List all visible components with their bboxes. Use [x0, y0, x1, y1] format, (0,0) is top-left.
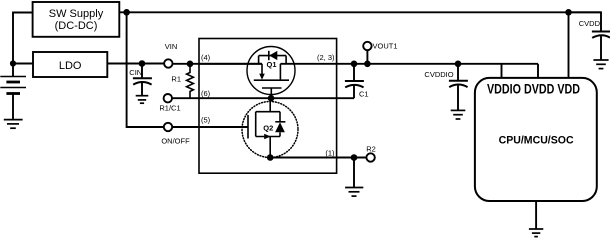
node: CVDDIO junction [455, 61, 462, 68]
node: R2 ground junction [351, 154, 358, 161]
capacitor CVDD [592, 32, 610, 61]
svg-text:CVDDIO: CVDDIO [424, 70, 453, 79]
wire: Q1 drain to VOUT [280, 63, 538, 65]
svg-text:(5): (5) [201, 116, 211, 125]
ground: CIN [136, 96, 149, 104]
resistor R1 [187, 67, 194, 98]
svg-text:VOUT1: VOUT1 [373, 42, 398, 51]
capacitor C1 [345, 64, 364, 98]
node: VOUT1 junction [364, 61, 371, 68]
svg-text:Q2: Q2 [263, 123, 273, 132]
pin circle: R1/C1 [164, 94, 172, 102]
wire: (1) net to R2 [270, 157, 366, 159]
wire: CPU ground lead [535, 201, 537, 229]
node: Q1 gate / net 6 junction [268, 95, 275, 102]
node: CIN junction [139, 60, 146, 67]
wire: VIN to Q1 source [173, 63, 263, 65]
wire: battery to SW Supply input [13, 13, 33, 61]
node: VDD feed junction [565, 9, 572, 16]
wire: ON/OFF to Q2 gate [172, 126, 248, 128]
wire: SW Supply output to VDD rail [119, 11, 601, 13]
capacitor CIN [133, 64, 152, 96]
svg-text:(1): (1) [325, 149, 335, 158]
svg-text:CIN: CIN [129, 68, 142, 77]
ground: CVDDIO [451, 110, 466, 119]
node: SW supply output junction [123, 9, 130, 16]
pin circle: R2 [366, 153, 374, 161]
wire: battery node vertical to battery top [12, 60, 14, 77]
wire: VDD pin drop [568, 12, 570, 78]
svg-text:Q1: Q1 [266, 60, 276, 69]
wire: VDDIO pin drop [501, 64, 503, 78]
svg-text:(DC-DC): (DC-DC) [55, 20, 98, 32]
node: R1 top junction [187, 61, 194, 68]
transistor Q1 (PMOS pass FET) [247, 47, 295, 99]
node: battery / LDO input junction [10, 60, 16, 66]
pin circle: ON/OFF [164, 123, 172, 131]
transistor Q2 (NMOS pull-down) [242, 98, 298, 157]
wire: LDO output to VIN pin [107, 63, 163, 65]
svg-text:VDDIO DVDD VDD: VDDIO DVDD VDD [487, 82, 580, 97]
wire: net 1 to ground [353, 158, 355, 188]
capacitor CVDDIO [449, 64, 468, 111]
wire: DVDD pin drop [537, 64, 539, 78]
ground: CVDD [593, 60, 608, 69]
wire: feedback net (6) R1/C1 to C1 bottom [172, 97, 354, 99]
ground: battery [4, 120, 23, 129]
block: LDO [33, 52, 107, 77]
label: SW Supply (DC-DC) [49, 8, 104, 32]
svg-text:(4): (4) [201, 53, 211, 62]
pin circle: VIN [164, 59, 172, 67]
svg-text:CPU/MCU/SOC: CPU/MCU/SOC [499, 134, 574, 146]
ground: CPU [529, 229, 543, 237]
svg-text:(2, 3): (2, 3) [317, 53, 335, 62]
block: SW Supply (DC-DC) [33, 2, 120, 37]
svg-text:(6): (6) [201, 89, 211, 98]
svg-text:SW Supply: SW Supply [49, 8, 104, 20]
svg-text:R1: R1 [171, 75, 181, 84]
wire: battery node to LDO input [13, 63, 33, 65]
battery BT1 [0, 77, 26, 94]
block box: regulator outline [199, 39, 337, 174]
svg-text:VIN: VIN [165, 42, 178, 51]
wire: enable feed down to ON/OFF [127, 12, 164, 127]
wire: (4) input into box [199, 63, 262, 65]
wire: VOUT1 stub [366, 50, 368, 64]
ground: R2 [345, 188, 363, 197]
block: CPU/MCU/SOC [475, 78, 597, 201]
svg-text:ON/OFF: ON/OFF [161, 137, 190, 146]
svg-text:CVDD: CVDD [579, 19, 601, 28]
node: C1 junction [351, 61, 358, 68]
svg-text:R1/C1: R1/C1 [159, 104, 180, 113]
pin circle: VOUT1 [363, 42, 371, 50]
wire: CVDD feed [569, 12, 602, 31]
svg-text:C1: C1 [359, 90, 369, 99]
node: Q2 source / net 1 junction [267, 154, 274, 161]
svg-text:LDO: LDO [59, 60, 82, 72]
svg-text:R2: R2 [366, 145, 376, 154]
wire: battery negative to ground [12, 94, 14, 120]
